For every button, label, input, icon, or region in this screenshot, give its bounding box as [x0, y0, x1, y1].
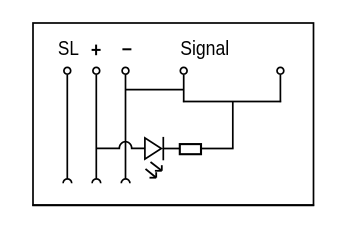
wire vertical Signal right	[279, 75, 281, 102]
svg-text:Signal: Signal	[180, 38, 229, 60]
resistor R1	[180, 144, 201, 154]
label minus	[122, 48, 131, 50]
border frame	[33, 23, 314, 205]
wire vertical SL	[66, 75, 68, 179]
wire vertical Signal left	[183, 75, 185, 102]
wire horizontal node minus to Signal	[126, 89, 184, 91]
wire LED row with crossover hop	[96, 142, 145, 149]
terminal 2 (+)	[93, 67, 100, 74]
terminal 5 (Signal)	[277, 67, 284, 74]
wire signal bus	[183, 101, 281, 103]
wire LED cathode to resistor	[163, 148, 179, 150]
socket contact +	[92, 179, 101, 183]
LED D1 cathode bar	[162, 137, 164, 160]
terminal 1 (SL)	[64, 67, 71, 74]
socket contact -	[121, 179, 130, 183]
wire resistor to signal drop	[201, 148, 234, 150]
svg-text:SL: SL	[58, 38, 79, 60]
socket contact SL	[63, 179, 72, 183]
terminal 3 (-)	[122, 67, 129, 74]
terminal 4 (Signal)	[180, 67, 187, 74]
LED light arrow 1	[151, 162, 162, 171]
LED D1 triangle	[145, 138, 161, 159]
wire vertical +	[95, 75, 97, 179]
wire signal drop	[232, 102, 234, 149]
wire vertical -	[125, 75, 127, 179]
LED light arrow 2	[146, 169, 157, 178]
label +	[92, 45, 101, 56]
